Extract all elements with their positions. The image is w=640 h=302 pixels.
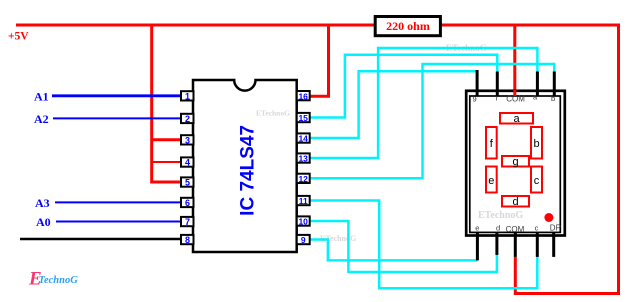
wire input A0 to pin 7 (blue) [56,221,182,223]
display top pin a stub [536,72,539,97]
svg-text:IC 74LS47: IC 74LS47 [238,125,259,216]
display top pin label g [473,95,477,104]
svg-text:A2: A2 [34,112,49,126]
segment c [531,167,542,193]
wire branch to pin 3 [152,138,182,141]
pin 4 [181,157,194,167]
svg-text:c: c [534,175,540,187]
svg-text:5: 5 [185,178,190,188]
svg-text:A0: A0 [36,215,51,229]
display bottom pin label c [535,224,539,233]
svg-text:6: 6 [185,198,190,208]
wire input A3 to pin 6 (blue) [55,201,182,203]
wire +5V branch to pins 3,4,5 [150,25,153,184]
wire pin14 to segment g (cyan) [310,71,478,138]
svg-text:11: 11 [299,196,308,206]
resistor R1 220 ohm [375,17,440,36]
wire +5V rail to display COM top [513,25,516,94]
display top pin label f [496,94,499,103]
watermark near resistor [446,43,487,53]
pin 10 [297,216,310,226]
IC U1 74LS47 body [193,80,297,252]
wire branch to pin 5 [152,181,182,184]
node A1 [34,90,49,104]
svg-text:TechnoG: TechnoG [39,275,79,286]
display top pin label COM [506,95,525,104]
display top pin label a [533,93,538,102]
svg-text:13: 13 [298,154,308,164]
svg-text:10: 10 [298,217,308,227]
pin 11 [297,196,310,206]
segment d [502,196,529,208]
svg-text:4: 4 [185,158,190,168]
segment e [486,167,497,193]
svg-text:+5V: +5V [8,31,29,43]
wire pin16 to +5V rail [310,25,329,96]
svg-text:14: 14 [298,134,308,144]
pin 1 [181,91,194,101]
wire pin10 to segment d (cyan) [310,221,497,272]
display top pin g stub [476,70,479,96]
display inner frame [470,96,561,232]
node A0 [36,215,51,229]
svg-text:e: e [475,224,479,233]
display bottom pin label e [475,224,479,233]
svg-text:ETechnoG: ETechnoG [478,210,523,221]
svg-text:12: 12 [298,174,308,184]
svg-text:c: c [535,224,539,233]
pin 6 [181,198,194,208]
display bottom pin DP stub [552,232,555,257]
decimal point DP [544,213,553,222]
pin 3 [181,135,194,145]
svg-text:ETechnoG: ETechnoG [256,109,290,118]
pin 8 [181,235,194,245]
display top pin f stub [496,72,499,97]
segment b [531,127,542,159]
svg-text:2: 2 [185,114,190,124]
svg-text:A1: A1 [34,90,49,104]
svg-text:d: d [512,196,518,208]
svg-text:220 ohm: 220 ohm [386,19,430,33]
display top pin COM stub (red) [513,90,516,96]
+5V supply rail wire [16,24,375,27]
svg-text:16: 16 [298,91,308,101]
display top pin b stub [553,72,556,97]
display bottom pin label DP [550,223,561,232]
pin 16 [297,91,310,101]
display bottom pin d stub [495,232,498,255]
svg-text:b: b [533,138,539,150]
watermark near pin 9 [320,234,356,243]
wire pin9 to segment e (cyan) [310,240,478,261]
watermark inside IC [256,109,290,118]
segment g [502,156,529,168]
wire resistor output to right rail [442,25,619,294]
wire input A2 to pin 2 (blue) [53,117,182,119]
pin 5 [181,177,194,187]
pin 14 [297,133,310,143]
wire branch to pin 4 [152,161,182,163]
display top pin label b [551,94,555,103]
display bottom pin e stub [476,232,479,260]
ETechnoG logo [28,269,78,290]
pin 2 [181,114,194,124]
wire pin13 to segment a (cyan) [310,48,538,158]
display bottom pin c stub [536,232,539,257]
svg-text:8: 8 [185,235,190,245]
pin 13 [297,153,310,163]
watermark inside display [478,210,523,221]
svg-text:7: 7 [185,217,190,227]
pin 9 [297,235,310,245]
pin 12 [297,174,310,184]
segment f [486,127,497,159]
svg-text:a: a [513,113,520,125]
pin 7 [181,217,194,227]
svg-text:15: 15 [298,113,308,123]
display bottom pin label d [496,224,500,233]
wire pin11 to segment c (cyan) [310,201,538,289]
svg-text:3: 3 [185,136,190,146]
svg-text:d: d [496,224,500,233]
svg-text:9: 9 [301,235,306,245]
wire input A1 to pin 1 (blue) [52,94,182,97]
pin 15 [297,113,310,123]
svg-text:A3: A3 [35,196,50,210]
svg-text:e: e [488,175,494,187]
display bottom pin COM stub [514,232,517,257]
wire pin12 to segment b (cyan) [310,64,555,178]
wire pin15 to segment f (cyan) [310,55,498,118]
7-segment display DS1 outer body [466,91,565,236]
display bottom pin label COM [506,225,525,234]
svg-text:DP: DP [550,223,561,232]
label +5V [8,31,29,43]
svg-text:g: g [512,156,518,168]
wire pin8 to ground (black) [20,238,182,241]
segment a [500,113,533,125]
svg-text:1: 1 [185,92,190,102]
node A2 [34,112,49,126]
node A3 [35,196,50,210]
